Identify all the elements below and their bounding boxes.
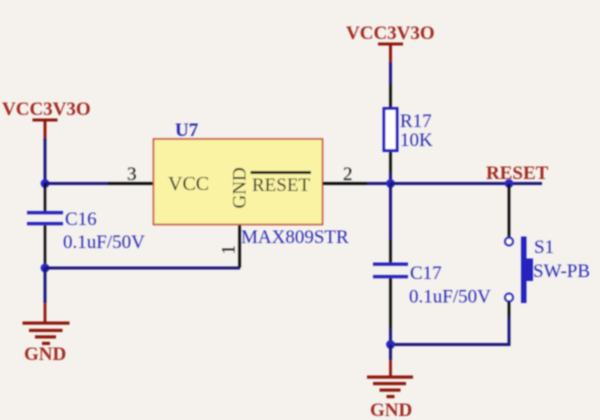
pin label GND (U7, rotated) (230, 167, 251, 208)
svg-text:SW-PB: SW-PB (533, 261, 590, 282)
svg-text:VCC3V3O: VCC3V3O (346, 23, 435, 44)
node A: junction VCC3V3O / C16 / pin3 (41, 179, 50, 188)
wire: node B to pin 1 of U7 (45, 267, 240, 270)
svg-text:GND: GND (24, 344, 66, 365)
net label RESET (486, 163, 549, 184)
wire: S1 bottom contact down and left to node E (391, 302, 511, 347)
svg-text:10K: 10K (400, 130, 433, 151)
wire: node A to pin 3 of U7 (45, 182, 155, 185)
svg-text:C17: C17 (410, 263, 442, 284)
pin label VCC (U7) (168, 173, 209, 195)
wire: node C to RESET stub end (391, 182, 543, 185)
wire: node D down to S1 top contact (508, 184, 511, 238)
svg-text:C16: C16 (65, 209, 97, 230)
node E: junction C17 / S1 return / GND (386, 340, 395, 349)
value label 0.1uF/50V (C17) (409, 287, 491, 308)
resistor R17 (384, 109, 397, 151)
svg-text:RESET: RESET (252, 175, 310, 196)
svg-text:VCC: VCC (168, 173, 209, 195)
svg-text:VCC3V3O: VCC3V3O (2, 99, 91, 120)
node D: junction RESET net / switch S1 (505, 179, 514, 188)
svg-text:0.1uF/50V: 0.1uF/50V (409, 287, 491, 308)
svg-text:U7: U7 (175, 120, 199, 141)
node C: junction R17 / pin2 / C17 / RESET net (386, 179, 395, 188)
wire: node E down to right ground (389, 345, 392, 377)
ground symbol (left) (23, 322, 70, 366)
op-amp U7 MAX809STR body (154, 139, 323, 225)
svg-text:0.1uF/50V: 0.1uF/50V (63, 232, 145, 253)
power symbol VCC3V3O (left) (2, 99, 91, 139)
switch S1 bottom contact (505, 294, 513, 302)
designator U7 (175, 120, 199, 141)
wire: top VCC stem to resistor R17 (389, 62, 392, 107)
svg-text:MAX809STR: MAX809STR (241, 227, 349, 248)
svg-text:S1: S1 (534, 237, 554, 258)
pin number 3 (127, 164, 137, 185)
switch S1 top contact (505, 238, 513, 246)
svg-text:RESET: RESET (486, 163, 549, 184)
power symbol VCC3V3O (top) (346, 23, 435, 62)
value SW-PB (533, 261, 590, 282)
label C17 (410, 263, 442, 284)
wire: pin 1 lead from U7 bottom (238, 225, 241, 268)
wire: pin 2 of U7 to node C (323, 182, 392, 185)
wire: left VCC stem to node A (44, 138, 47, 184)
wire: node B down to left ground (44, 268, 47, 322)
svg-text:1: 1 (219, 245, 240, 255)
designator R17 (400, 111, 432, 132)
switch S1 actuator bar and button (521, 237, 533, 304)
ground symbol (right) (367, 376, 413, 420)
svg-text:GND: GND (230, 167, 251, 208)
designator S1 (534, 237, 554, 258)
part value MAX809STR (241, 227, 349, 248)
pin number 1 (rotated) (219, 245, 240, 255)
node B: junction C16 / pin1 wire / GND (41, 264, 50, 273)
capacitor C17 (373, 263, 408, 346)
wire: node C down to capacitor C17 (389, 184, 392, 264)
wire: R17 bottom to node C (389, 152, 392, 184)
capacitor C16 (27, 183, 63, 268)
value 10K (400, 130, 433, 151)
pin label RESET with overbar (U7) (251, 171, 312, 196)
value label 0.1uF/50V (C16) (63, 232, 145, 253)
svg-text:2: 2 (343, 164, 353, 185)
pin number 2 (343, 164, 353, 185)
svg-text:R17: R17 (400, 111, 432, 132)
label C16 (65, 209, 97, 230)
svg-text:3: 3 (127, 164, 137, 185)
svg-text:GND: GND (370, 400, 412, 420)
